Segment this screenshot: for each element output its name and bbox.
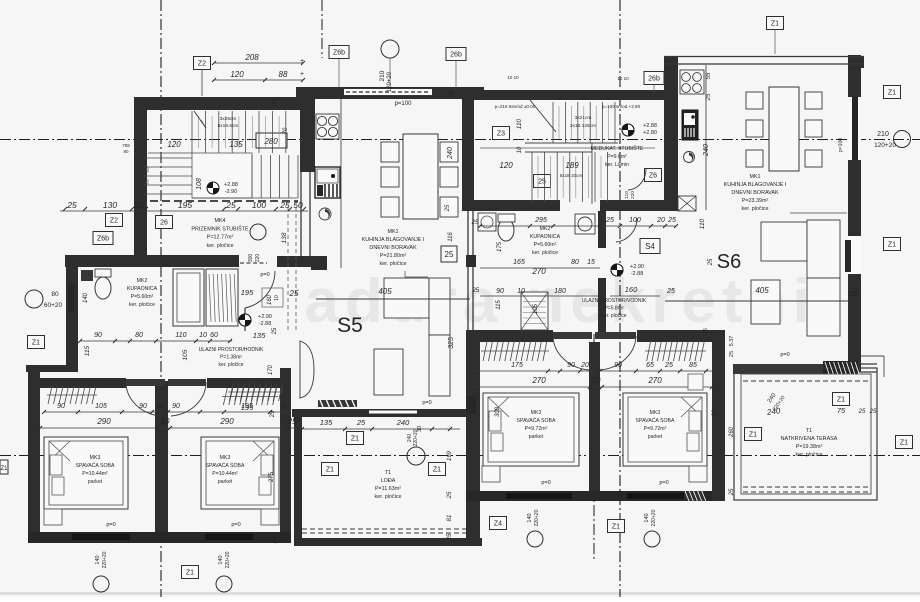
svg-text:25: 25: [66, 200, 77, 210]
svg-text:+2.80: +2.80: [643, 130, 657, 136]
svg-text:90: 90: [139, 403, 147, 410]
svg-text:P=10.44m²: P=10.44m²: [212, 471, 238, 477]
svg-text:170: 170: [268, 364, 274, 375]
svg-text:p=0: p=0: [541, 480, 550, 486]
svg-text:Z1: Z1: [0, 466, 8, 472]
svg-text:25: 25: [729, 351, 735, 357]
svg-text:25: 25: [289, 289, 299, 298]
svg-text:KUHINJA BLAGOVANJE I: KUHINJA BLAGOVANJE I: [724, 182, 787, 188]
svg-text:25: 25: [708, 258, 714, 266]
svg-text:25: 25: [605, 217, 614, 224]
svg-text:25: 25: [445, 204, 451, 212]
svg-text:26: 26: [160, 220, 168, 227]
svg-text:169: 169: [447, 450, 453, 461]
svg-text:25: 25: [445, 250, 454, 259]
svg-text:26b: 26b: [450, 52, 462, 59]
svg-text:20: 20: [580, 362, 589, 369]
svg-text:KUPAONICA: KUPAONICA: [127, 286, 158, 292]
svg-text:240: 240: [703, 144, 710, 157]
svg-text:60+20: 60+20: [44, 302, 63, 309]
svg-text:Z6b: Z6b: [333, 50, 345, 57]
svg-text:T1: T1: [806, 428, 812, 434]
svg-text:P=23.39m²: P=23.39m²: [742, 198, 769, 204]
svg-text:ULAZNI PROSTOR/HODNIK: ULAZNI PROSTOR/HODNIK: [199, 347, 264, 353]
svg-text:100: 100: [629, 217, 641, 224]
svg-text:90: 90: [94, 332, 102, 339]
svg-text:220+20: 220+20: [102, 551, 108, 568]
svg-text:25: 25: [729, 488, 735, 496]
svg-text:325: 325: [448, 337, 455, 349]
svg-text:20: 20: [155, 403, 164, 410]
svg-text:25: 25: [449, 90, 455, 98]
svg-text:10: 10: [517, 146, 523, 153]
svg-text:p=216 5sn/od ±0.00: p=216 5sn/od ±0.00: [495, 104, 536, 109]
svg-text:70: 70: [145, 179, 150, 185]
svg-text:parket: parket: [529, 434, 544, 440]
svg-text:P=5.60m²: P=5.60m²: [534, 242, 557, 248]
svg-text:270: 270: [647, 376, 662, 385]
svg-text:25: 25: [225, 200, 236, 210]
svg-text:195: 195: [241, 403, 253, 410]
svg-text:88: 88: [279, 70, 288, 79]
svg-text:3x21cm: 3x21cm: [575, 115, 592, 121]
svg-text:25: 25: [667, 217, 676, 224]
svg-text:8x18.5cm: 8x18.5cm: [218, 123, 239, 129]
svg-text:115: 115: [84, 345, 91, 356]
svg-text:220+20: 220+20: [534, 509, 540, 526]
svg-text:+: +: [300, 58, 304, 65]
svg-text:p=100: p=100: [395, 101, 413, 107]
svg-text:P=10.44m²: P=10.44m²: [82, 471, 108, 477]
svg-text:405: 405: [755, 286, 769, 295]
svg-text:MK3: MK3: [650, 410, 661, 416]
svg-text:Z1: Z1: [326, 467, 334, 474]
svg-text:+2.88: +2.88: [643, 123, 657, 129]
svg-text:ULAZNI PROSTOR/VODNIK: ULAZNI PROSTOR/VODNIK: [582, 298, 647, 304]
svg-text:3x25cm: 3x25cm: [220, 116, 237, 122]
svg-text:140: 140: [218, 555, 224, 564]
svg-text:135: 135: [253, 331, 266, 340]
svg-text:ker. pločice: ker. pločice: [742, 206, 769, 212]
svg-text:P=1.38m²: P=1.38m²: [220, 355, 242, 361]
svg-text:ker. Lamin: ker. Lamin: [605, 162, 629, 168]
svg-text:MK3: MK3: [220, 455, 231, 461]
svg-text:405: 405: [378, 287, 392, 296]
svg-text:S5: S5: [337, 314, 363, 337]
svg-text:P=9.72m²: P=9.72m²: [525, 426, 548, 432]
svg-text:S4: S4: [645, 242, 655, 251]
svg-text:T1: T1: [385, 470, 391, 476]
svg-text:25: 25: [869, 409, 877, 415]
svg-text:165: 165: [513, 259, 525, 266]
svg-text:ker. pločice: ker. pločice: [380, 261, 407, 267]
svg-text:290: 290: [96, 417, 111, 426]
svg-text:110: 110: [175, 332, 186, 339]
svg-text:ker. pločice: ker. pločice: [129, 302, 155, 308]
svg-text:70: 70: [283, 127, 289, 134]
svg-text:80: 80: [571, 259, 579, 266]
svg-text:260: 260: [729, 426, 735, 438]
svg-text:105: 105: [533, 303, 539, 314]
svg-text:DNEVNI BORAVAK: DNEVNI BORAVAK: [731, 190, 779, 196]
svg-text:208: 208: [244, 53, 259, 62]
svg-text:Z1: Z1: [433, 467, 441, 474]
svg-text:10: 10: [199, 332, 207, 339]
svg-text:ker. pločice: ker. pločice: [375, 494, 402, 500]
svg-text:Z2: Z2: [110, 218, 118, 225]
svg-text:25: 25: [848, 291, 857, 298]
svg-text:210: 210: [877, 131, 889, 138]
svg-text:55: 55: [706, 72, 712, 79]
svg-text:25: 25: [666, 288, 675, 295]
svg-text:KUHINJA BLAGOVANJE I: KUHINJA BLAGOVANJE I: [362, 237, 425, 243]
svg-text:MK1: MK1: [387, 229, 398, 235]
svg-text:120: 120: [499, 161, 513, 170]
svg-text:P=5.8m²: P=5.8m²: [604, 306, 623, 312]
svg-text:+2.90: +2.90: [630, 264, 644, 270]
svg-text:SPAVAĆA SOBA: SPAVAĆA SOBA: [206, 462, 245, 469]
svg-text:25: 25: [447, 491, 453, 499]
svg-text:60: 60: [210, 332, 218, 339]
svg-text:120: 120: [230, 70, 244, 79]
svg-text:110: 110: [624, 191, 630, 199]
svg-text:195: 195: [241, 288, 254, 297]
svg-text:Z1: Z1: [612, 524, 620, 531]
svg-text:Z3: Z3: [497, 131, 505, 138]
svg-text:p=0: p=0: [422, 400, 431, 406]
svg-text:Z6b: Z6b: [97, 236, 109, 243]
svg-text:25: 25: [133, 200, 144, 210]
svg-text:5.37: 5.37: [729, 336, 735, 347]
svg-text:90: 90: [172, 403, 180, 410]
svg-text:PRIZEMNIK STUBIŠTE: PRIZEMNIK STUBIŠTE: [191, 225, 249, 232]
svg-text:SPAVAĆA SOBA: SPAVAĆA SOBA: [76, 462, 115, 469]
svg-text:25: 25: [706, 93, 712, 101]
svg-text:ker. pločice: ker. pločice: [601, 313, 626, 319]
svg-text:275: 275: [269, 471, 275, 482]
svg-text:adura nekretni: adura nekretni: [304, 267, 815, 336]
svg-text:300: 300: [248, 254, 254, 263]
svg-text:130: 130: [103, 200, 117, 210]
svg-text:50: 50: [293, 200, 303, 210]
svg-text:parket: parket: [218, 479, 233, 485]
svg-text:P=5.60m²: P=5.60m²: [131, 294, 154, 300]
svg-text:80: 80: [51, 291, 59, 298]
svg-text:MK2: MK2: [137, 278, 148, 284]
svg-text:-2.88: -2.88: [259, 321, 272, 327]
svg-text:240: 240: [447, 147, 454, 160]
svg-text:parket: parket: [648, 434, 663, 440]
svg-text:ker. pločice: ker. pločice: [218, 362, 243, 368]
svg-text:Z1: Z1: [888, 90, 896, 97]
svg-text:P=9.6m²: P=9.6m²: [607, 154, 627, 160]
svg-text:p=0: p=0: [260, 272, 269, 278]
svg-text:110: 110: [516, 118, 523, 129]
svg-text:100: 100: [252, 200, 266, 210]
svg-text:+: +: [300, 71, 304, 78]
svg-text:220+20: 220+20: [651, 509, 657, 526]
svg-text:10: 10: [592, 376, 601, 385]
svg-text:60: 60: [145, 167, 150, 173]
svg-text:25: 25: [356, 418, 366, 427]
svg-text:108: 108: [196, 178, 203, 190]
svg-text:+2.88: +2.88: [224, 182, 238, 188]
svg-text:MK3: MK3: [90, 455, 101, 461]
svg-text:Z1: Z1: [351, 436, 359, 443]
svg-text:p=0: p=0: [780, 352, 789, 358]
svg-text:26b: 26b: [648, 76, 660, 83]
svg-text:120: 120: [167, 140, 181, 149]
svg-text:MK2: MK2: [540, 226, 551, 232]
svg-text:10: 10: [161, 417, 170, 426]
svg-text:P=9.72m²: P=9.72m²: [644, 426, 667, 432]
svg-text:KUPAONICA: KUPAONICA: [530, 234, 561, 240]
svg-text:65: 65: [646, 362, 654, 369]
svg-text:Z1: Z1: [186, 570, 194, 577]
svg-text:p=100 sn/od +2.80: p=100 sn/od +2.80: [602, 104, 641, 109]
svg-text:-2.90: -2.90: [225, 189, 238, 195]
svg-text:Z1: Z1: [32, 340, 40, 347]
svg-text:120+20: 120+20: [874, 142, 896, 149]
svg-text:p=100: p=100: [838, 138, 844, 152]
svg-text:180: 180: [554, 288, 566, 295]
svg-text:25: 25: [279, 200, 290, 210]
svg-text:10 10: 10 10: [617, 76, 629, 81]
svg-text:p=0: p=0: [231, 522, 240, 528]
svg-text:ker. pločice: ker. pločice: [207, 243, 234, 249]
svg-text:SPAVAĆA SOBA: SPAVAĆA SOBA: [517, 417, 556, 424]
svg-text:+2.90: +2.90: [258, 314, 272, 320]
svg-text:175: 175: [497, 241, 503, 252]
svg-text:parket: parket: [88, 479, 103, 485]
svg-text:90: 90: [567, 362, 575, 369]
svg-text:Z1: Z1: [749, 432, 757, 439]
svg-text:295: 295: [534, 217, 547, 224]
svg-text:MK1: MK1: [749, 174, 760, 180]
svg-text:80: 80: [135, 332, 143, 339]
svg-text:Z1: Z1: [888, 242, 896, 249]
svg-text:DNEVNI BORAVAK: DNEVNI BORAVAK: [369, 245, 417, 251]
svg-text:189: 189: [565, 161, 579, 170]
svg-text:p=0: p=0: [659, 480, 668, 486]
svg-text:789: 789: [122, 143, 130, 148]
svg-text:25: 25: [272, 327, 278, 334]
svg-text:160: 160: [625, 285, 638, 294]
svg-text:220: 220: [255, 254, 261, 263]
svg-text:15: 15: [703, 328, 709, 334]
svg-text:110: 110: [699, 218, 706, 229]
svg-text:P=21.80m²: P=21.80m²: [380, 253, 407, 259]
svg-text:10: 10: [517, 288, 525, 295]
svg-text:S6: S6: [717, 251, 741, 273]
svg-text:25: 25: [447, 533, 453, 541]
svg-text:P=19.38m²: P=19.38m²: [796, 444, 823, 450]
svg-text:SPAVAĆA SOBA: SPAVAĆA SOBA: [636, 417, 675, 424]
svg-text:25: 25: [287, 417, 297, 426]
svg-text:10: 10: [274, 295, 280, 301]
svg-text:25: 25: [270, 410, 276, 417]
svg-text:MEĐUKAT. STUBIŠTE: MEĐUKAT. STUBIŠTE: [591, 145, 644, 152]
svg-text:81: 81: [447, 515, 453, 522]
svg-text:195: 195: [178, 200, 192, 210]
svg-text:140: 140: [644, 513, 650, 522]
svg-text:Z1: Z1: [900, 440, 908, 447]
svg-text:5x18 10cm: 5x18 10cm: [560, 173, 583, 178]
svg-text:LOĐA: LOĐA: [381, 478, 396, 484]
svg-text:25: 25: [858, 409, 866, 415]
svg-text:90: 90: [496, 288, 504, 295]
svg-text:25: 25: [272, 536, 278, 544]
svg-text:300: 300: [495, 406, 501, 417]
svg-text:115: 115: [496, 300, 502, 310]
svg-text:10 10: 10 10: [507, 75, 519, 80]
svg-text:-2.88: -2.88: [631, 271, 644, 277]
svg-text:85: 85: [689, 362, 697, 369]
svg-text:NATKRIVENA TERASA: NATKRIVENA TERASA: [781, 436, 838, 442]
svg-text:Z2: Z2: [198, 61, 206, 68]
svg-text:20: 20: [656, 217, 665, 224]
svg-text:Z6: Z6: [649, 173, 657, 180]
svg-text:25: 25: [473, 288, 480, 294]
svg-text:25: 25: [664, 362, 673, 369]
svg-text:105: 105: [182, 349, 189, 360]
svg-text:240: 240: [396, 418, 410, 427]
svg-text:140: 140: [527, 513, 533, 522]
svg-text:P=12.77m²: P=12.77m²: [207, 235, 234, 241]
svg-text:135: 135: [320, 418, 333, 427]
svg-text:140: 140: [83, 292, 89, 303]
svg-text:270: 270: [531, 376, 546, 385]
svg-text:135: 135: [229, 140, 243, 149]
svg-text:138: 138: [281, 232, 288, 243]
svg-text:116: 116: [448, 232, 454, 242]
svg-text:160: 160: [267, 294, 273, 305]
svg-text:90: 90: [57, 403, 65, 410]
svg-text:ker. pločice: ker. pločice: [532, 250, 558, 256]
svg-text:105: 105: [95, 403, 107, 410]
svg-text:p=0: p=0: [106, 522, 115, 528]
svg-text:Z4: Z4: [494, 521, 502, 528]
svg-text:175: 175: [511, 362, 523, 369]
svg-text:MK3: MK3: [531, 410, 542, 416]
svg-text:220: 220: [630, 191, 636, 199]
svg-text:P=11.63m²: P=11.63m²: [375, 486, 401, 492]
svg-text:80: 80: [123, 149, 129, 154]
svg-text:220+20: 220+20: [225, 551, 231, 568]
svg-text:30: 30: [712, 409, 718, 416]
svg-text:Z1: Z1: [771, 21, 779, 28]
svg-text:MK4: MK4: [214, 218, 225, 224]
svg-text:ker. pločice: ker. pločice: [796, 452, 823, 458]
svg-text:140: 140: [95, 555, 101, 564]
svg-text:90: 90: [272, 97, 278, 104]
svg-text:90: 90: [614, 362, 622, 369]
svg-text:75: 75: [837, 406, 846, 415]
svg-text:70: 70: [283, 402, 289, 409]
svg-text:290: 290: [219, 417, 234, 426]
svg-text:210: 210: [379, 70, 386, 81]
svg-text:15: 15: [587, 259, 595, 266]
svg-text:Z1: Z1: [837, 397, 845, 404]
svg-text:3x18.125cm: 3x18.125cm: [570, 123, 596, 129]
